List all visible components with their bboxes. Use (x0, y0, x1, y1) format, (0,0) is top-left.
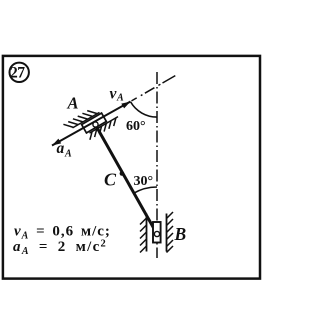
svg-text:27: 27 (10, 64, 25, 81)
svg-text:60°: 60° (126, 119, 146, 134)
svg-text:B: B (174, 224, 187, 244)
svg-text:A: A (67, 94, 79, 113)
svg-text:A: A (64, 149, 72, 160)
svg-text:30°: 30° (134, 174, 154, 189)
svg-text:C: C (104, 170, 117, 190)
svg-text:a: a (57, 140, 65, 157)
svg-text:A: A (116, 93, 124, 104)
